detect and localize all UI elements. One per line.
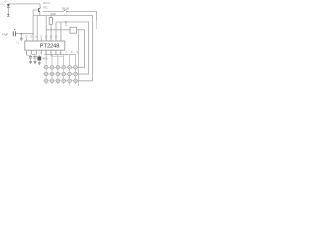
IC top pin stubs [27,38,61,41]
key column labels [65,50,78,54]
svg-text:9: 9 [60,35,62,39]
ground below C3 [34,61,37,64]
svg-text:2: 2 [30,50,32,54]
top rail wire to LED [8,3,40,5]
bottom pin numbers [25,50,61,54]
wire T1 horizontal [46,29,70,31]
svg-text:455k: 455k [42,57,48,61]
svg-text:8: 8 [60,50,62,54]
Vcc rail wrapping to key row 3 [33,16,92,81]
svg-text:IC: IC [17,41,20,45]
key button inner marks row [45,73,76,75]
ground below C2 [29,61,32,64]
svg-text:12: 12 [45,35,48,39]
IC U1 PT2248 body [25,41,65,50]
wire T2 line wrapping to key row 2 [56,22,89,74]
svg-text:S9013: S9013 [43,2,51,5]
key row 1 wire [43,66,84,68]
svg-text:16: 16 [25,35,28,39]
wire base of VT1 down to pin 15 [33,10,39,41]
IR LED VD1 [4,0,10,7]
capacitor C3 [33,56,36,61]
capacitor C2 [29,56,32,61]
svg-text:SB 9V: SB 9V [62,7,70,11]
ground below B1 [38,62,41,65]
wire pin1 to C2 [27,55,31,56]
svg-text:10: 10 [55,35,58,39]
wire T1 line wrapping to key row 1 [77,30,85,68]
svg-text:VD: VD [0,4,3,6]
svg-text:13: 13 [40,35,43,39]
key row 3 wire [43,80,92,82]
wire pin9 up to T2 line [60,22,62,41]
key buttons row 2 [44,72,77,75]
wire pin2 to C3 [32,54,36,56]
key matrix column jog wires [44,54,76,56]
node stub on T2 line [65,21,66,26]
transistor VT1 [38,4,40,16]
resistor R1 [49,16,52,42]
key matrix column vertical wires [46,55,75,85]
IC bottom pin stubs [27,50,61,56]
svg-text:7: 7 [65,50,67,54]
top pin numbers [25,35,63,39]
battery rail with switch SB [43,9,97,29]
svg-text:11: 11 [50,35,53,39]
wire pin14 to Vcc rail [36,16,38,42]
electrolytic capacitor C1 [13,29,15,37]
svg-text:5: 5 [45,50,47,54]
svg-text:15: 15 [30,35,33,39]
svg-text:6: 6 [50,50,52,54]
component box on T1 line [70,27,77,33]
key button inner marks row [45,67,76,69]
svg-text:4: 4 [40,50,42,54]
wire branch down from box line [77,30,79,86]
svg-text:3: 3 [35,50,37,54]
ground branch near C1 [20,34,23,41]
crystal B1 [38,55,41,63]
key button inner marks row [45,80,76,82]
svg-text:8: 8 [71,50,73,54]
wire C1 to base net [15,33,33,35]
IR LED VD2 [7,14,10,17]
key row 2 wire [43,73,88,75]
junction base net [20,33,22,35]
svg-text:PT2248: PT2248 [40,44,60,50]
key buttons row 1 [44,66,77,69]
wire T1 line from pin12 [45,16,47,42]
svg-text:1: 1 [25,50,27,54]
svg-text:VT1: VT1 [43,7,48,10]
key buttons row 3 [44,79,77,82]
svg-text:7: 7 [55,50,57,54]
wire LED1 to LED2 [7,7,9,14]
svg-text:47μF: 47μF [2,32,8,36]
